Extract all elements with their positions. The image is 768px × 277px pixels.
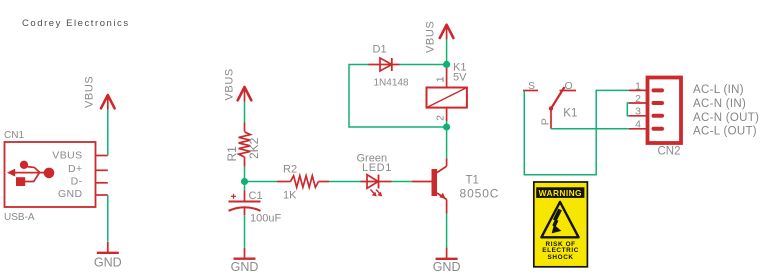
svg-text:100uF: 100uF <box>250 213 281 225</box>
svg-text:D-: D- <box>71 176 83 188</box>
svg-text:GND: GND <box>58 188 83 200</box>
svg-text:AC-N (IN): AC-N (IN) <box>693 98 746 110</box>
svg-text:LED1: LED1 <box>362 162 392 174</box>
svg-text:AC-L (OUT): AC-L (OUT) <box>693 126 757 138</box>
svg-text:1N4148: 1N4148 <box>374 78 409 89</box>
svg-text:R2: R2 <box>283 164 297 176</box>
svg-text:D1: D1 <box>373 44 387 56</box>
svg-text:SHOCK: SHOCK <box>548 254 574 261</box>
svg-text:USB-A: USB-A <box>4 212 35 223</box>
svg-text:CN2: CN2 <box>658 146 681 158</box>
svg-text:GND: GND <box>94 256 122 270</box>
svg-text:WARNING: WARNING <box>539 188 582 198</box>
svg-text:AC-N (OUT): AC-N (OUT) <box>693 112 759 124</box>
svg-text:GND: GND <box>433 260 461 274</box>
svg-text:5V: 5V <box>453 72 467 84</box>
svg-text:GND: GND <box>231 260 259 274</box>
svg-text:CN1: CN1 <box>4 130 24 141</box>
svg-text:T1: T1 <box>466 175 479 187</box>
svg-text:VBUS: VBUS <box>84 76 96 108</box>
svg-text:1: 1 <box>635 80 641 92</box>
svg-text:AC-L (IN): AC-L (IN) <box>693 84 744 96</box>
svg-text:C1: C1 <box>249 190 263 202</box>
svg-text:8050C: 8050C <box>460 187 500 201</box>
svg-text:2: 2 <box>635 93 641 105</box>
svg-text:VBUS: VBUS <box>52 149 82 161</box>
svg-text:Codrey Electronics: Codrey Electronics <box>22 18 130 29</box>
svg-text:K1: K1 <box>563 107 577 119</box>
svg-text:P: P <box>540 118 552 125</box>
svg-text:D+: D+ <box>68 163 83 175</box>
svg-text:3: 3 <box>635 106 641 118</box>
svg-text:1: 1 <box>434 76 446 82</box>
svg-text:2: 2 <box>434 115 446 121</box>
svg-text:4: 4 <box>635 119 641 131</box>
svg-text:R1: R1 <box>225 146 239 162</box>
svg-text:VBUS: VBUS <box>425 21 437 53</box>
svg-text:VBUS: VBUS <box>224 68 236 100</box>
svg-text:2K2: 2K2 <box>247 137 261 159</box>
svg-text:1K: 1K <box>283 190 297 202</box>
